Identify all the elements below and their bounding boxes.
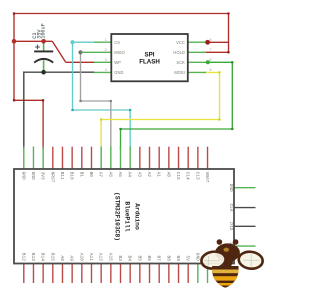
svg-text:B7: B7 (156, 255, 162, 261)
svg-text:A6: A6 (107, 172, 113, 178)
svg-text:GND: GND (194, 253, 200, 261)
svg-text:B5: B5 (136, 255, 142, 261)
svg-text:A15: A15 (107, 253, 113, 261)
svg-text:5V: 5V (185, 255, 191, 261)
svg-text:C14: C14 (185, 172, 191, 180)
svg-text:B15: B15 (49, 253, 55, 261)
svg-text:4: 4 (105, 68, 107, 72)
svg-text:BluePill: BluePill (123, 201, 130, 231)
svg-text:A0: A0 (165, 172, 171, 178)
svg-text:2: 2 (105, 48, 107, 52)
svg-text:VCC: VCC (176, 40, 185, 45)
svg-text:MISO: MISO (114, 50, 124, 55)
svg-text:3V3: 3V3 (40, 172, 46, 180)
svg-text:B11: B11 (59, 172, 65, 180)
svg-text:GND: GND (228, 184, 234, 192)
svg-text:B12: B12 (20, 253, 26, 261)
svg-text:B1: B1 (78, 172, 84, 178)
svg-text:A3: A3 (136, 172, 142, 178)
svg-text:B0: B0 (88, 172, 94, 178)
svg-text:5: 5 (210, 68, 212, 72)
svg-text:A8: A8 (59, 255, 65, 261)
svg-text:A7: A7 (98, 172, 104, 178)
svg-text:A12: A12 (98, 253, 104, 261)
svg-text:100uF: 100uF (41, 23, 47, 39)
svg-text:A9: A9 (69, 255, 75, 261)
svg-text:B10: B10 (69, 172, 75, 180)
svg-text:1: 1 (105, 38, 107, 42)
svg-text:Arduino: Arduino (133, 203, 140, 230)
svg-text:B13: B13 (30, 253, 36, 261)
svg-text:NRST: NRST (49, 172, 55, 183)
svg-text:B9: B9 (175, 255, 181, 261)
svg-text:B6: B6 (146, 255, 152, 261)
svg-text:CLK: CLK (228, 204, 234, 212)
svg-text:SPI: SPI (145, 52, 155, 59)
svg-text:A11: A11 (88, 253, 94, 261)
svg-text:3: 3 (105, 58, 107, 62)
svg-text:8: 8 (210, 38, 212, 42)
svg-text:DIO: DIO (228, 222, 234, 230)
svg-text:B8: B8 (165, 255, 171, 261)
svg-text:GND: GND (114, 70, 123, 75)
svg-text:B14: B14 (40, 253, 46, 261)
svg-text:A5: A5 (117, 172, 123, 178)
svg-text:FLASH: FLASH (139, 59, 160, 66)
svg-text:A2: A2 (146, 172, 152, 178)
svg-text:A4: A4 (127, 172, 133, 178)
svg-text:GND: GND (30, 172, 36, 180)
svg-text:C15: C15 (175, 172, 181, 180)
svg-text:WP: WP (114, 60, 121, 65)
svg-text:6: 6 (210, 58, 212, 62)
svg-text:HOLD: HOLD (173, 50, 184, 55)
svg-text:7: 7 (210, 48, 212, 52)
svg-text:A10: A10 (78, 253, 84, 261)
svg-text:B4: B4 (127, 255, 133, 261)
svg-text:B3: B3 (117, 255, 123, 261)
svg-text:A1: A1 (156, 172, 162, 178)
svg-text:C13: C13 (194, 172, 200, 180)
svg-text:MOSI: MOSI (174, 70, 184, 75)
svg-text:SCK: SCK (176, 60, 185, 65)
svg-text:(STM32F103C8): (STM32F103C8) (113, 192, 120, 241)
svg-text:CS: CS (114, 40, 120, 45)
svg-text:GND: GND (20, 172, 26, 180)
svg-text:VBAT: VBAT (204, 172, 210, 183)
